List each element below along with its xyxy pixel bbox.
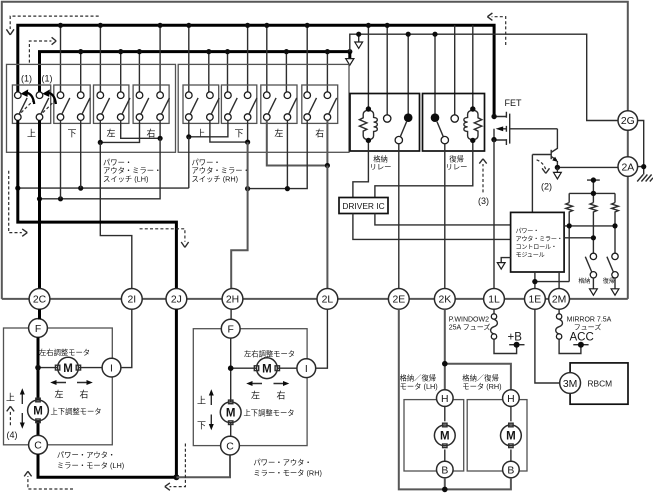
wire 2L feed: [326, 166, 328, 289]
connector 1E: [525, 289, 546, 310]
motor unit M4 (store RH) box: [467, 400, 527, 471]
wire line-B (RH cross to right-L): [248, 120, 308, 188]
svg-text:上: 上: [197, 396, 206, 406]
arrow dashed bottom-left: [24, 471, 73, 489]
svg-text:左右調整モータ: 左右調整モータ: [39, 348, 90, 357]
relay K1 NC contact (closed): [404, 113, 413, 122]
transistor Q2: [532, 129, 558, 168]
relay K1 blade: [400, 122, 406, 137]
arrow dashed (4): [7, 406, 18, 440]
terminal I (RH): [297, 359, 316, 378]
wire to M5: [38, 367, 58, 369]
wire RH left to 2L link: [267, 120, 328, 165]
label power outer mirror switch LH: [103, 158, 161, 183]
label power outer mirror motor RH: [253, 458, 322, 478]
fuse F1 P.WINDOW2: [491, 309, 517, 353]
mirror motor box (LH): [4, 328, 113, 445]
coil K1: [359, 106, 377, 143]
node ACC tap: [570, 332, 594, 348]
svg-text:2M: 2M: [552, 295, 566, 306]
wire K1 common to 2E: [398, 144, 400, 289]
switch group DOWN (LH) sub-box: [54, 85, 90, 123]
svg-text:右: 右: [146, 128, 155, 139]
node bus1 junction dots: [58, 23, 390, 28]
switch contact DN-L (LH): [57, 92, 70, 121]
svg-text:(3): (3): [478, 196, 489, 206]
svg-text:下: 下: [234, 129, 243, 139]
switch contact RT-R (LH): [157, 92, 170, 121]
svg-text:2I: 2I: [127, 295, 136, 306]
node off-page stub A: [355, 32, 363, 49]
arrow dashed top-left (1) entry: [6, 16, 98, 35]
svg-text:I: I: [110, 363, 113, 374]
arrow dashed bottom-center: [165, 444, 186, 491]
svg-text:コントロール・: コントロール・: [516, 244, 557, 251]
node F column dot (RH): [228, 365, 234, 371]
svg-text:モータ (LH): モータ (LH): [400, 382, 438, 391]
terminal C (LH): [29, 435, 48, 454]
wire K2 common to 2K: [444, 144, 446, 289]
switch contact UP-L (LH): [14, 92, 27, 121]
connector 1L: [484, 289, 505, 310]
node off-page stub below Q2: [554, 167, 562, 179]
svg-text:(1): (1): [21, 74, 32, 84]
switch group RIGHT (LH) sub-box: [133, 85, 169, 123]
wire module to R1,R3: [564, 214, 615, 282]
svg-text:ミラー・モータ (LH): ミラー・モータ (LH): [57, 461, 124, 470]
wire H to M (LH): [444, 406, 446, 421]
wire bus2 drops LH switch: [81, 52, 140, 92]
terminal H (LH): [437, 390, 454, 407]
relay K1 (store) box: [350, 94, 420, 152]
relay K1 NO contact: [384, 115, 391, 122]
arrow dashed left-middle: [9, 171, 28, 237]
svg-text:下: 下: [197, 421, 206, 431]
svg-text:2C: 2C: [33, 295, 47, 306]
motor M5 (left-right LH): [55, 357, 80, 378]
switch contact DN-R (RH): [244, 92, 257, 121]
terminal F (RH): [221, 319, 240, 338]
svg-text:25A フューズ: 25A フューズ: [449, 323, 491, 332]
svg-text:1L: 1L: [488, 295, 500, 306]
wire 2K to store motors: [445, 309, 511, 390]
wire C to 2J thick bottom: [38, 454, 176, 477]
node RH 2L link dot: [325, 163, 330, 168]
svg-text:(2): (2): [541, 181, 552, 191]
svg-text:DRIVER IC: DRIVER IC: [342, 201, 384, 211]
svg-text:I: I: [305, 364, 308, 375]
svg-text:2L: 2L: [322, 295, 334, 306]
wire drop to relay1 NC contact: [407, 34, 409, 114]
svg-text:C: C: [34, 441, 42, 452]
svg-text:リレー: リレー: [446, 163, 468, 172]
wire FET source to 1L: [493, 140, 495, 289]
node thin-line junction dots: [406, 32, 438, 37]
terminal B (RH): [503, 461, 520, 478]
wire to M7: [231, 367, 257, 369]
svg-text:B: B: [441, 465, 448, 476]
switch contact LF-R (LH): [117, 92, 130, 121]
label store/return motor RH: [462, 374, 501, 391]
wire I to 2L: [316, 309, 328, 368]
relay K2 NO contact: [451, 115, 458, 122]
svg-text:リレー: リレー: [370, 163, 392, 172]
wire module to R2: [564, 214, 593, 254]
node line-199 dots: [37, 196, 63, 201]
svg-text:M: M: [33, 406, 43, 418]
svg-text:2J: 2J: [171, 295, 182, 306]
label return relay: [446, 154, 468, 171]
IC RBCM box: [570, 363, 628, 404]
arrow curved actuate 1: [21, 89, 35, 104]
arrow left-right (LH): [50, 380, 93, 385]
label fuse F1: [449, 316, 491, 331]
terminal F (LH): [29, 319, 48, 338]
svg-text:復帰: 復帰: [603, 277, 615, 285]
motor M8 (up-down RH): [220, 400, 241, 424]
wire LH left/right cross link 2: [121, 120, 160, 138]
svg-text:パワー・アウタ・: パワー・アウタ・: [253, 458, 311, 467]
switch contact RT-R (RH): [324, 92, 337, 121]
coil K2: [464, 106, 482, 143]
node off-page stub B (bus2 end): [346, 52, 354, 66]
svg-text:1E: 1E: [529, 295, 542, 306]
wire F down to adjust motors (thick): [37, 337, 40, 435]
node Q2 emitter junction: [555, 165, 560, 170]
svg-text:P.WINDOW2: P.WINDOW2: [449, 316, 489, 323]
switch contact UP-R (RH): [207, 92, 220, 121]
svg-text:上下調整モータ: 上下調整モータ: [51, 407, 102, 416]
connector 2M: [549, 289, 570, 310]
transistor Q1 FET: [491, 98, 557, 145]
wire bus1 drops LH switch: [61, 25, 161, 92]
svg-text:モジュール: モジュール: [516, 252, 545, 259]
wire 2G right to ground column: [638, 121, 644, 167]
svg-text:3M: 3M: [563, 379, 577, 390]
wire 2H to F: [230, 309, 232, 320]
wire bus2 drops RH switch: [209, 52, 328, 92]
wire M to B (LH): [444, 450, 446, 462]
relay K1 common contact: [395, 136, 402, 143]
node ground-loop wire (top and left frame): [2, 2, 628, 299]
wire 2G to 2A: [627, 130, 629, 157]
wire C RH to 2J dot: [176, 455, 230, 477]
wire Q2 base to module: [531, 155, 533, 213]
wire M5 to I: [79, 367, 103, 369]
switch group DOWN (RH) sub-box: [221, 85, 256, 123]
wire K2 coil to driver IC: [375, 143, 473, 198]
switch assembly SW2 (RH) box: [178, 64, 349, 152]
node module-1E dot: [532, 279, 537, 284]
switch return (manual): [607, 253, 618, 278]
wire drop to relay2 NC contact: [434, 34, 436, 114]
mirror motor box (RH): [193, 329, 307, 446]
svg-text:左: 左: [274, 128, 283, 139]
switch actuator dashed blade 1: [21, 100, 34, 113]
svg-text:B: B: [507, 465, 514, 476]
switch contact DN-L (RH): [225, 92, 238, 121]
wire bus1 drops RH switch: [189, 25, 307, 92]
svg-text:F: F: [35, 324, 41, 335]
terminal C (RH): [221, 436, 240, 455]
svg-text:C: C: [226, 441, 234, 452]
arrow dashed near 2J top: [140, 229, 189, 248]
switch contact LF-L (RH): [264, 92, 277, 121]
fuse F2 MIRROR: [556, 309, 581, 353]
switch contact RT-L (LH): [136, 92, 149, 121]
wire thick path to 2J: [18, 120, 177, 288]
svg-text:左: 左: [54, 389, 63, 400]
switch store (manual): [585, 253, 596, 278]
svg-text:H: H: [441, 394, 449, 405]
node motor ground dot: [442, 487, 448, 493]
wire bus1 (thick feed bus): [18, 25, 494, 116]
connector 2I: [121, 289, 142, 310]
node off-page stub return switch: [611, 278, 619, 295]
switch group RIGHT (RH) sub-box: [302, 85, 338, 123]
svg-text:M: M: [506, 431, 516, 443]
module (power outer mirror control module) box: [511, 212, 564, 272]
wire 1E to 3M: [535, 309, 560, 383]
wire F down to adjust motors (RH): [230, 338, 232, 436]
svg-text:M: M: [440, 431, 450, 443]
terminal I (LH): [102, 358, 121, 377]
node +B tap: [508, 332, 525, 348]
ground chassis symbol: [637, 175, 653, 182]
terminal B (LH): [437, 461, 454, 478]
svg-text:+B: +B: [508, 332, 523, 344]
motor M3: [434, 423, 455, 447]
node F column dot: [35, 365, 41, 371]
switch contact LF-L (LH): [97, 92, 110, 121]
relay K2 (return) box: [423, 94, 485, 152]
arrow up-down (LH): [20, 388, 25, 429]
svg-text:RBCM: RBCM: [588, 379, 613, 389]
wire RH up/down cross link 2: [210, 120, 248, 142]
svg-text:アウタ・ミラー・: アウタ・ミラー・: [516, 235, 563, 243]
svg-text:モータ (RH): モータ (RH): [462, 382, 501, 391]
resistor R2: [590, 203, 597, 214]
connector 2G: [618, 111, 638, 131]
motor M6 (up-down LH): [28, 398, 49, 422]
svg-text:左: 左: [106, 128, 115, 139]
wire driver IC out 1: [375, 214, 511, 225]
svg-text:M: M: [226, 408, 236, 420]
connector 2C: [29, 289, 50, 310]
arrow curved actuate 2: [42, 89, 56, 104]
wire bus1 drops to relays: [368, 25, 472, 115]
svg-text:上下調整モータ: 上下調整モータ: [244, 409, 295, 418]
switch group LEFT (LH) sub-box: [94, 85, 129, 123]
svg-text:MIRROR 7.5A: MIRROR 7.5A: [567, 316, 612, 323]
switch group UP (LH) sub-box: [12, 85, 50, 123]
connector 2E: [388, 289, 409, 310]
wire Q2 emitter to 2A: [557, 166, 618, 168]
wire 2A down to row: [627, 176, 629, 299]
node bus2 junction dots: [78, 49, 352, 54]
switch actuator dashed blade 2: [43, 100, 56, 113]
motor unit M3 (store LH) box: [404, 400, 464, 471]
node R2 wire dot: [591, 235, 596, 240]
wire line-A (LH thick tap to RH up/down): [18, 137, 189, 188]
wire M to B (RH): [510, 450, 512, 462]
node off-page stub store switch: [590, 278, 598, 295]
svg-text:下: 下: [67, 129, 76, 139]
label power outer mirror motor LH: [57, 450, 124, 470]
wire 2H feed: [231, 142, 247, 288]
svg-text:FET: FET: [505, 98, 523, 108]
wire LH down switch taps: [61, 120, 81, 198]
node junction 2A-right: [641, 164, 646, 169]
switch assembly SW1 (LH) box: [7, 64, 176, 152]
svg-text:(1): (1): [42, 74, 53, 84]
connector 2H: [222, 289, 243, 310]
svg-text:ACC: ACC: [570, 332, 594, 344]
wire 2C to F thick: [38, 309, 41, 319]
node off-page stub module left: [497, 258, 510, 270]
label store/return motor LH: [400, 374, 438, 391]
switch contact LF-R (RH): [284, 92, 297, 121]
svg-text:格納: 格納: [578, 277, 590, 285]
resistor R1: [566, 203, 573, 214]
node power tap bar: [587, 177, 600, 193]
relay K2 common contact: [441, 136, 448, 143]
label store relay: [370, 154, 392, 171]
switch contact UP-L (RH): [186, 92, 199, 121]
svg-text:パワー・アウタ・: パワー・アウタ・: [57, 450, 115, 459]
wire module bottom to 1E and R1 link: [535, 272, 569, 289]
wire resistor rail: [569, 193, 615, 202]
svg-text:M: M: [63, 363, 73, 375]
resistor R3: [612, 203, 619, 214]
terminal H (RH): [503, 390, 520, 407]
wire LH left/right cross link 1: [100, 120, 139, 142]
connector 3M: [560, 373, 581, 394]
svg-text:2K: 2K: [438, 295, 451, 306]
svg-text:上: 上: [27, 129, 36, 139]
svg-text:上: 上: [6, 393, 15, 403]
node line-A dots: [15, 186, 83, 191]
node store motor feed dot: [442, 361, 448, 367]
wire driver IC out 2: [353, 214, 511, 240]
node rail junction: [591, 191, 596, 196]
svg-text:右: 右: [315, 128, 324, 139]
svg-text:スイッチ (LH): スイッチ (LH): [103, 174, 148, 183]
relay K2 NC contact (closed): [431, 113, 440, 122]
svg-text:右: 右: [79, 389, 88, 400]
connector 2K: [434, 289, 455, 310]
svg-text:左右調整モータ: 左右調整モータ: [244, 350, 295, 359]
node LH cross dots: [98, 136, 163, 145]
arrow dashed (3): [478, 159, 489, 206]
switch contact RT-L (RH): [304, 92, 317, 121]
node R wire dots: [567, 223, 618, 228]
svg-text:2E: 2E: [392, 295, 405, 306]
wire thick path to 2C: [38, 120, 41, 288]
wire H to M (RH): [510, 406, 512, 421]
svg-text:スイッチ (RH): スイッチ (RH): [192, 174, 239, 183]
svg-text:M: M: [262, 363, 272, 375]
switch group LEFT (RH) sub-box: [261, 85, 297, 123]
motor M7 (left-right RH): [254, 358, 279, 379]
arrow left-right (RH): [246, 381, 289, 386]
connector 2L: [317, 289, 338, 310]
node 2J bottom dot: [173, 474, 179, 480]
arrow dashed top-right: [487, 13, 505, 45]
svg-text:フューズ: フューズ: [574, 323, 602, 332]
motor M4: [501, 423, 522, 447]
wire connector row line: [2, 298, 628, 300]
relay K2 blade: [437, 122, 443, 137]
label fuse F2: [567, 316, 612, 331]
svg-text:ミラー・モータ (RH): ミラー・モータ (RH): [253, 468, 322, 477]
wire thin line to 2G: [350, 34, 618, 120]
node line-B dots: [245, 186, 290, 191]
switch contact DN-R (LH): [77, 92, 90, 121]
svg-text:2H: 2H: [226, 295, 239, 306]
svg-text:F: F: [228, 325, 234, 336]
svg-text:(4): (4): [7, 430, 18, 440]
wire M7 to I: [277, 367, 297, 369]
arrow up-down (RH): [209, 389, 214, 430]
arrow dashed left (to switch): [29, 37, 56, 62]
svg-text:2G: 2G: [621, 116, 635, 127]
connector 2A: [618, 157, 638, 177]
svg-text:パワー・: パワー・: [516, 228, 540, 235]
svg-text:左: 左: [251, 390, 260, 401]
label power outer mirror switch RH: [192, 158, 250, 183]
switch contact UP-R (LH): [36, 92, 49, 121]
wire 2J column thick: [175, 309, 178, 477]
svg-text:2A: 2A: [621, 162, 634, 173]
wire K1 coil to driver IC: [353, 143, 369, 198]
wire 2I feed from LH left/right: [100, 142, 132, 288]
wire 2A right to ground: [638, 167, 644, 175]
wire line-199 (LH right-R to 2C column): [40, 138, 161, 199]
switch group UP (RH) sub-box: [183, 85, 219, 123]
wire I to 2I: [121, 309, 132, 367]
connector 2J: [166, 289, 187, 310]
wire bus2 (thick feed bus): [40, 52, 350, 92]
wire motor ground to 2E: [399, 309, 511, 489]
svg-text:右: 右: [276, 390, 285, 401]
wire RH up/down cross link 1: [189, 120, 228, 136]
svg-text:H: H: [507, 394, 515, 405]
arrow dashed (2): [537, 160, 552, 192]
IC U1 DRIVER IC box: [339, 198, 388, 214]
node RH cross dots: [186, 134, 250, 145]
